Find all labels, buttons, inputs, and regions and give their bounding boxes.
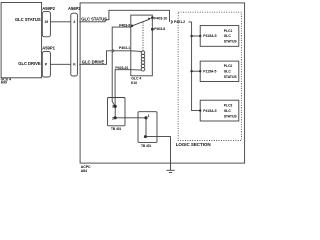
svg-text:4: 4 xyxy=(73,20,75,24)
svg-text:GLC STATUS: GLC STATUS xyxy=(15,17,41,22)
svg-text:P115A-5: P115A-5 xyxy=(203,70,216,74)
svg-text:P415A-5: P415A-5 xyxy=(203,109,216,113)
svg-text:3: 3 xyxy=(112,105,114,109)
svg-text:A99: A99 xyxy=(1,81,7,85)
svg-text:TB 401: TB 401 xyxy=(141,144,151,148)
svg-text:GLC: GLC xyxy=(224,70,232,74)
svg-text:STATUS: STATUS xyxy=(224,40,238,44)
svg-text:A59P1: A59P1 xyxy=(42,46,55,51)
svg-text:P401-2: P401-2 xyxy=(174,20,185,24)
svg-text:TB 401: TB 401 xyxy=(111,127,121,131)
svg-text:P315A-5: P315A-5 xyxy=(203,34,216,38)
svg-text:K: K xyxy=(73,63,76,67)
svg-text:P: P xyxy=(45,63,48,67)
svg-text:GLC DRIVE: GLC DRIVE xyxy=(82,59,105,64)
svg-text:A59P2: A59P2 xyxy=(42,6,55,11)
svg-text:P403-22: P403-22 xyxy=(115,66,128,70)
svg-text:1: 1 xyxy=(148,114,150,118)
svg-text:P403-8: P403-8 xyxy=(154,27,165,31)
svg-text:PLC2: PLC2 xyxy=(224,64,233,68)
svg-text:STATUS: STATUS xyxy=(224,75,238,79)
svg-text:PLC1: PLC1 xyxy=(224,29,233,33)
svg-text:2: 2 xyxy=(112,116,114,120)
svg-text:A56P2: A56P2 xyxy=(68,6,81,11)
svg-text:GLC STATUS: GLC STATUS xyxy=(81,16,107,21)
svg-text:GLC 4: GLC 4 xyxy=(131,77,141,81)
svg-text:PLC3: PLC3 xyxy=(224,104,233,108)
svg-text:A84: A84 xyxy=(81,169,87,173)
svg-text:P403-10: P403-10 xyxy=(154,16,167,20)
svg-text:GLC: GLC xyxy=(224,109,232,113)
svg-text:P403-9: P403-9 xyxy=(119,24,130,28)
svg-text:K10: K10 xyxy=(131,81,137,85)
svg-text:GLC DRIVE: GLC DRIVE xyxy=(18,61,41,66)
svg-text:LOGIC SECTION: LOGIC SECTION xyxy=(176,142,211,147)
svg-text:GLC: GLC xyxy=(224,34,232,38)
svg-text:STATUS: STATUS xyxy=(224,114,238,118)
svg-text:19: 19 xyxy=(44,20,48,24)
svg-text:P403-1: P403-1 xyxy=(119,46,130,50)
